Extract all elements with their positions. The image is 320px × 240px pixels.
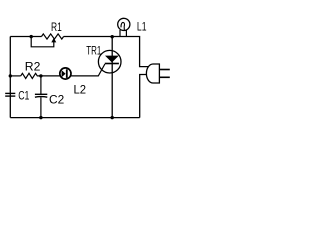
wire: R1 wiper loop [31, 37, 54, 47]
wire: bottom rail [10, 117, 139, 119]
svg-text:C2: C2 [49, 92, 65, 106]
node F (junction dot TR1 cathode at bottom rail) [111, 116, 114, 119]
plug P1 upper prong [159, 69, 169, 71]
svg-text:C1: C1 [18, 89, 29, 103]
TR1 gate lead [71, 64, 105, 76]
node D (junction dot R2 right / C2 top) [39, 74, 42, 77]
capacitor C1 bottom plate [5, 95, 15, 97]
node A (junction dot left of R1) [30, 35, 33, 38]
svg-text:R1: R1 [51, 20, 62, 34]
svg-text:L2: L2 [74, 83, 87, 97]
L2 bar [66, 69, 68, 78]
svg-text:L1: L1 [137, 20, 147, 34]
wire: C2 bottom lead [40, 97, 42, 117]
neon/diode lamp L2 (circle) [60, 68, 71, 79]
capacitor C1 top plate [5, 92, 15, 94]
lamp L1 [118, 18, 130, 30]
L2 triangle [62, 70, 66, 77]
resistor R1 (zigzag body) [42, 34, 64, 39]
wire: top rail left segment to R1 [10, 36, 41, 38]
wire: C2 top lead [40, 76, 42, 94]
capacitor C2 bottom plate (slightly curved) [35, 96, 47, 99]
wire: top rail from R1 to plug corner [64, 37, 149, 67]
wire: left rail to R2 [10, 75, 20, 77]
capacitor C2 top plate [35, 93, 47, 95]
wire: left vertical rail [9, 37, 11, 118]
TR1 triangle (anode arrow) [105, 56, 119, 63]
node E (junction dot C2 bottom) [39, 116, 42, 119]
wire: bottom rail up to plug lower stub [140, 75, 149, 118]
node B (junction dot at TR1 anode) [111, 35, 114, 38]
thyristor TR1 (circle) [98, 50, 121, 73]
svg-text:R2: R2 [25, 59, 41, 73]
resistor R2 (zigzag body) [21, 73, 41, 78]
wire: TR1 anode-cathode vertical [111, 37, 113, 118]
node C (junction dot R2 left / left rail) [9, 74, 12, 77]
lamp L1 filament [121, 22, 125, 30]
plug P1 body [146, 64, 159, 83]
wire: R2 to L2 [41, 75, 60, 77]
lamp L1 legs [119, 30, 121, 37]
R1 wiper arrowhead [51, 38, 56, 43]
svg-text:TR1: TR1 [86, 44, 101, 58]
TR1 cathode bar [105, 63, 119, 65]
plug P1 lower prong [159, 76, 169, 78]
